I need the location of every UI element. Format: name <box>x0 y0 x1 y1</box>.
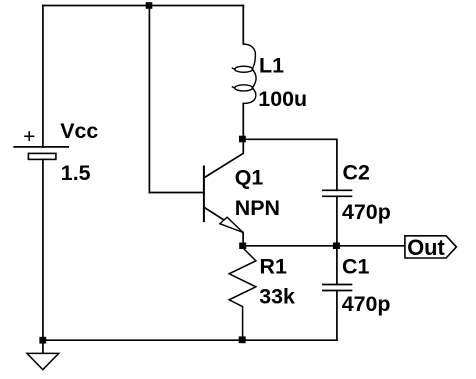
wire battery to bottom rail <box>42 159 44 340</box>
wire C1 bottom to bottom rail <box>336 291 338 341</box>
wire inductor bottom to junction <box>242 103 244 139</box>
node junction R1 bottom <box>239 336 246 343</box>
node junction emitter/R1 <box>239 243 246 250</box>
inductor L1 loop 1 <box>235 66 253 72</box>
wire out node down to C1 <box>336 246 338 285</box>
svg-text:470p: 470p <box>342 292 391 316</box>
out flag <box>405 236 457 258</box>
svg-text:33k: 33k <box>259 285 295 309</box>
wire junction to C2 top <box>243 139 337 190</box>
wire C2 bottom to out node <box>336 196 338 246</box>
svg-text:NPN: NPN <box>235 196 280 220</box>
svg-text:C2: C2 <box>343 160 370 184</box>
wire top rail <box>43 5 243 7</box>
capacitor C1 top plate <box>323 284 352 286</box>
capacitor C1 bottom plate <box>323 290 352 292</box>
svg-text:Q1: Q1 <box>235 166 264 190</box>
svg-text:L1: L1 <box>259 53 284 77</box>
svg-text:C1: C1 <box>342 254 369 278</box>
inductor L1 coil arc 1 <box>243 44 255 69</box>
wire top rail corner down to inductor <box>242 6 244 45</box>
svg-text:100u: 100u <box>258 87 307 111</box>
wire emitter node to out flag <box>243 245 405 247</box>
ground symbol <box>27 353 59 369</box>
node junction top <box>146 2 153 9</box>
transistor Q1 emitter arrow <box>220 217 243 232</box>
svg-text:Vcc: Vcc <box>60 119 98 143</box>
svg-text:470p: 470p <box>342 200 391 224</box>
node junction out/C2/C1 <box>333 243 340 250</box>
capacitor C2 bottom plate <box>323 195 352 197</box>
node junction collector/L1/C2 <box>239 136 246 143</box>
capacitor C2 top plate <box>323 189 352 191</box>
svg-text:Out: Out <box>407 235 445 260</box>
inductor L1 coil arc 3 <box>243 88 256 104</box>
inductor L1 coil arc 2 <box>252 69 256 88</box>
battery V1 negative plate box <box>28 153 56 159</box>
wire base lead <box>149 192 204 194</box>
wire left from top rail to battery <box>42 6 44 148</box>
inductor L1 loop 2 tick <box>232 87 235 88</box>
inductor L1 loop 1 tick <box>232 68 235 69</box>
wire from top junction down to base <box>148 6 150 193</box>
battery plus sign <box>25 132 34 141</box>
wire ground stub <box>42 340 44 353</box>
wire bottom rail <box>43 339 337 341</box>
node junction battery/ground <box>39 337 46 344</box>
svg-text:R1: R1 <box>260 255 287 279</box>
battery V1 Vcc top plate line <box>14 146 68 148</box>
resistor R1 zigzag <box>229 248 256 340</box>
transistor Q1 base bar <box>203 167 205 222</box>
svg-text:1.5: 1.5 <box>61 161 91 185</box>
transistor Q1 emitter lead <box>204 207 243 245</box>
transistor Q1 collector lead <box>204 139 243 178</box>
inductor L1 loop 2 <box>235 85 253 91</box>
